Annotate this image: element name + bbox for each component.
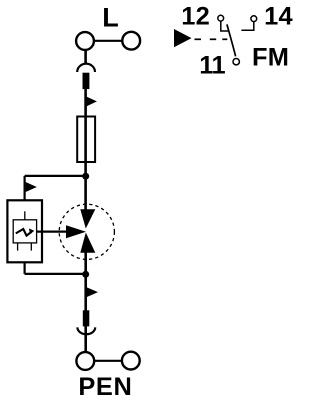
svg-text:14: 14 (264, 3, 293, 31)
svg-text:12: 12 (181, 3, 210, 31)
svg-text:L: L (102, 3, 119, 33)
svg-text:11: 11 (199, 51, 225, 79)
svg-text:PEN: PEN (78, 373, 132, 400)
svg-text:FM: FM (252, 44, 289, 72)
